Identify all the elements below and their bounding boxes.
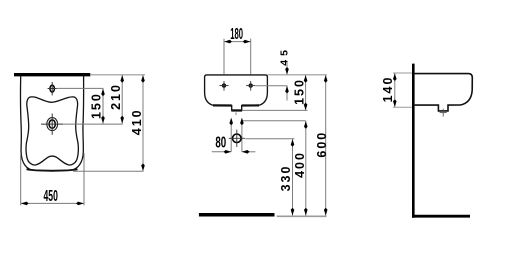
svg-text:210: 210 xyxy=(109,83,123,110)
svg-text:600: 600 xyxy=(315,131,329,158)
svg-text:410: 410 xyxy=(130,108,144,135)
svg-text:80: 80 xyxy=(215,133,226,151)
svg-text:180: 180 xyxy=(230,25,243,43)
svg-text:150: 150 xyxy=(293,78,307,105)
svg-text:450: 450 xyxy=(43,186,57,205)
svg-text:45: 45 xyxy=(278,46,290,66)
svg-text:150: 150 xyxy=(90,92,104,119)
svg-text:140: 140 xyxy=(381,76,395,103)
svg-text:400: 400 xyxy=(293,151,307,178)
svg-text:330: 330 xyxy=(279,165,293,192)
